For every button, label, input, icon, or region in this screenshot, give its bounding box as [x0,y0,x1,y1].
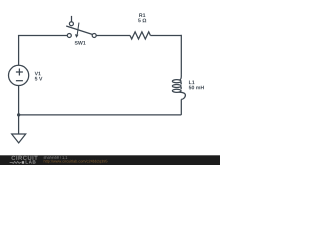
switch SW1 actuation arrow [77,23,79,35]
logo LAB text [26,160,36,163]
switch SW1 right terminal circle [92,33,96,37]
junction node dot [17,113,20,116]
V1 minus sign [16,80,23,82]
watermark username line [44,156,68,159]
wire switch to resistor [96,34,130,36]
switch SW1 arrow head [75,34,79,38]
wire top horizontal to switch [18,34,67,36]
logo element square [22,161,24,164]
label R1 value 5 ohm [138,19,146,23]
inductor L1 loop 2 [172,84,181,87]
V1 plus sign [16,69,23,76]
resistor R1 zigzag [130,32,150,39]
switch SW1 top stub [71,16,73,22]
logo resistor zigzag [10,162,22,164]
switch SW1 left terminal circle [67,33,71,37]
wire right vertical top [180,35,182,75]
label R1 [139,13,145,17]
wire left vertical top (node A to V1 plus) [18,35,20,65]
inductor L1 entry curve [179,75,181,81]
inductor L1 loop connector [180,87,183,89]
inductor L1 loop 3 [172,89,181,92]
label L1 [189,81,195,85]
wire resistor to corner [150,34,181,36]
label V1 value 5 V [35,77,43,81]
wire bottom horizontal [19,114,182,116]
switch SW1 top terminal circle [69,22,73,26]
logo CIRCUIT text [11,156,37,160]
label L1 value 50 mH [189,86,204,90]
label SW1 [75,41,86,45]
ground [12,134,26,143]
inductor L1 loop 1 [172,80,181,83]
inductor L1 loop connector [180,82,183,84]
inductor L1 exit curl [179,92,186,99]
switch SW1 lever [66,26,92,35]
watermark url line [44,160,108,164]
voltage source V1 [9,65,29,85]
watermark bar [0,155,220,165]
wire V1 minus to junction and ground [18,86,20,135]
wire right vertical bottom [180,99,182,115]
label V1 [35,72,41,76]
